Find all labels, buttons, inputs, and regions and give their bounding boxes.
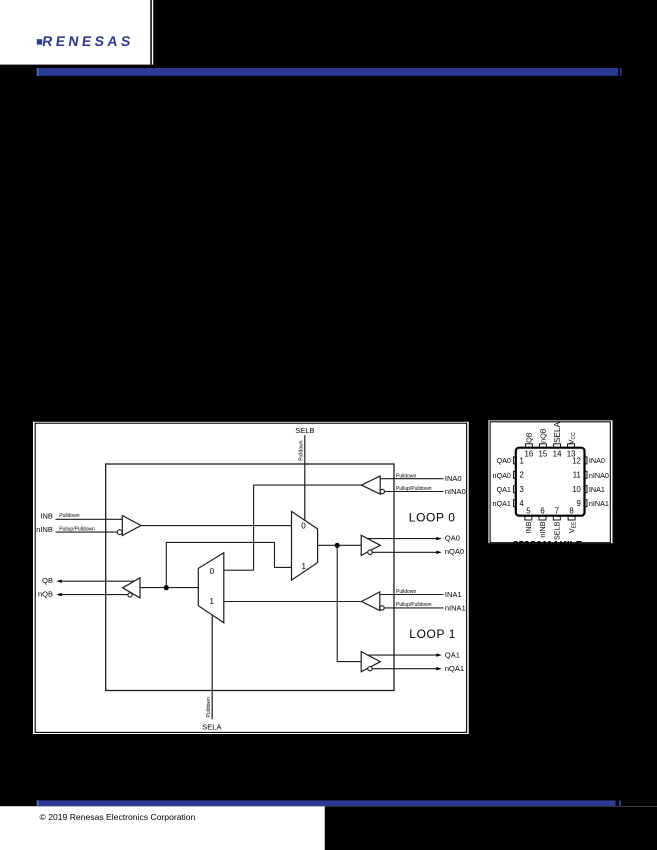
svg-text:LOOP 1: LOOP 1 [409, 627, 456, 641]
svg-text:nQA1: nQA1 [493, 499, 511, 508]
mux B (lower 2:1 mux) [198, 553, 224, 623]
svg-text:SELA: SELA [202, 722, 221, 731]
svg-text:INB: INB [524, 521, 533, 533]
svg-text:Pullup/Pulldown: Pullup/Pulldown [396, 602, 432, 608]
svg-text:© 2019 Renesas Electronics Cor: © 2019 Renesas Electronics Corporation [40, 812, 196, 822]
svg-text:nQA0: nQA0 [493, 471, 511, 480]
bubble U4 inverting output [128, 593, 132, 597]
pin 5 pad [525, 516, 532, 520]
pin 1 pad [513, 457, 517, 464]
svg-text:nINA0: nINA0 [445, 487, 466, 496]
svg-text:12: 12 [572, 456, 581, 465]
svg-text:853S011AKILF: 853S011AKILF [513, 540, 582, 551]
svg-text:nINA1: nINA1 [445, 603, 466, 612]
pin 7 pad [553, 516, 560, 520]
wire nINB input [56, 531, 117, 533]
svg-text:Pulldown: Pulldown [396, 589, 417, 595]
wire J1 down to QA1 buffer [337, 545, 361, 661]
buffer U1 INB receiver [122, 516, 141, 536]
svg-text:9: 9 [577, 499, 581, 508]
svg-text:nQB: nQB [38, 590, 53, 599]
header blue rule [37, 68, 619, 76]
svg-text:3: 3 [520, 485, 524, 494]
svg-text:nQA1: nQA1 [445, 664, 464, 673]
svg-text:Pulldown: Pulldown [299, 440, 305, 461]
wire QA1 output [368, 654, 438, 656]
svg-text:Pulldown: Pulldown [396, 473, 417, 479]
svg-text:1: 1 [301, 562, 306, 571]
wire nINA1 input [384, 607, 443, 609]
svg-text:0: 0 [210, 567, 215, 576]
node J2 junction dot [164, 585, 169, 590]
svg-text:nINB: nINB [538, 521, 547, 537]
arrow QB [56, 580, 62, 583]
pin 11 pad [583, 471, 587, 478]
svg-text:6: 6 [540, 506, 544, 515]
footer blue rule [37, 800, 616, 806]
header white corner box [0, 0, 153, 65]
bubble U2 inverting output [368, 550, 372, 554]
Renesas logo square [37, 39, 42, 44]
wire SELB select line [304, 436, 306, 520]
wire nINA0 input [384, 491, 443, 493]
arrow QA1 [436, 653, 442, 656]
svg-text:INA0: INA0 [445, 474, 462, 483]
wire nQA0 output [372, 551, 437, 553]
wire U3 output to B mux input 0 [224, 485, 362, 570]
buffer U4 QB driver [123, 578, 140, 598]
svg-text:QA1: QA1 [497, 485, 511, 494]
arrow QA0 [436, 537, 442, 540]
svg-text:QA0: QA0 [445, 534, 460, 543]
svg-text:2: 2 [520, 471, 524, 480]
pin 15 pad [539, 444, 546, 448]
svg-text:Pulldown: Pulldown [206, 697, 212, 718]
wire INB input [56, 518, 122, 520]
svg-text:QB: QB [42, 576, 53, 585]
pin 4 pad [513, 500, 517, 507]
bubble U6 inverting output [368, 667, 372, 671]
svg-text:nQB: nQB [538, 428, 547, 443]
pin 8 pad [568, 516, 575, 520]
svg-text:QA1: QA1 [445, 650, 460, 659]
svg-text:4: 4 [520, 499, 525, 508]
wire QB output [61, 580, 135, 582]
buffer U3 INA0 receiver [362, 476, 381, 494]
svg-text:INA1: INA1 [589, 485, 605, 494]
svg-text:7: 7 [555, 506, 559, 515]
svg-text:14: 14 [553, 449, 562, 458]
wire SELA select line [211, 615, 213, 719]
svg-text:RENESAS: RENESAS [41, 33, 135, 49]
pin 16 pad [525, 444, 532, 448]
wire mux A output [318, 544, 362, 546]
svg-text:Pullup/Pulldown: Pullup/Pulldown [396, 486, 432, 492]
svg-text:nINA0: nINA0 [589, 471, 609, 480]
svg-text:16: 16 [525, 449, 534, 458]
pin 10 pad [583, 486, 587, 493]
wire mux A input 1 path from node J2 [166, 542, 291, 587]
pin 6 pad [539, 516, 546, 520]
chip boundary rectangle [106, 464, 394, 691]
svg-text:Pullup/Pulldown: Pullup/Pulldown [59, 526, 95, 532]
svg-text:SELB: SELB [552, 521, 561, 540]
wire QA0 output [368, 538, 438, 540]
pin 2 pad [513, 471, 517, 478]
buffer U6 QA1 driver [361, 652, 380, 672]
arrow nQA0 [436, 551, 442, 554]
wire U5 output to B mux input 1 [224, 601, 362, 603]
wire nQB output [61, 594, 128, 596]
svg-text:SELA: SELA [553, 421, 562, 442]
wire INA0 input [380, 478, 443, 480]
svg-text:0: 0 [301, 522, 306, 531]
node J1 junction dot [335, 543, 340, 548]
svg-text:LOOP 0: LOOP 0 [409, 511, 456, 525]
buffer U5 INA1 receiver [362, 592, 380, 611]
buffer U2 QA0 driver [361, 535, 380, 555]
pin 3 pad [513, 486, 517, 493]
mux A (upper 2:1 mux) [292, 511, 318, 580]
package body U10 [516, 448, 585, 516]
svg-text:nINA1: nINA1 [589, 499, 609, 508]
svg-text:QA0: QA0 [497, 456, 511, 465]
svg-text:QB: QB [524, 432, 533, 443]
svg-text:10: 10 [572, 485, 581, 494]
svg-text:nQA0: nQA0 [445, 547, 464, 556]
bubble U1 inverting input [117, 530, 122, 535]
arrow nQA1 [436, 667, 442, 670]
svg-text:SELB: SELB [295, 426, 314, 435]
wire nQA1 output [372, 668, 437, 670]
svg-text:INA0: INA0 [589, 456, 605, 465]
svg-text:15: 15 [539, 449, 548, 458]
pin 12 pad [583, 457, 587, 464]
footer white strip [0, 806, 657, 850]
pin 14 pad [554, 444, 561, 448]
svg-text:8: 8 [569, 506, 573, 515]
bubble U3 inverting input [380, 489, 384, 493]
wire INA1 input [380, 594, 443, 596]
arrow nQB [56, 593, 62, 596]
svg-text:11: 11 [573, 471, 581, 480]
svg-text:INB: INB [40, 512, 53, 521]
pin 13 pad [568, 444, 575, 448]
footer right black block [325, 806, 657, 850]
bubble U5 inverting input [380, 606, 384, 610]
svg-text:1: 1 [520, 456, 524, 465]
svg-text:5: 5 [526, 506, 531, 515]
svg-text:Pulldown: Pulldown [59, 513, 80, 519]
pin 9 pad [583, 500, 587, 507]
svg-text:INA1: INA1 [445, 590, 462, 599]
wire mux B output to QB buffer [140, 587, 198, 589]
svg-text:1: 1 [209, 597, 214, 606]
svg-text:nINB: nINB [36, 525, 53, 534]
wire U1 output to mux A input 0 [141, 525, 292, 527]
